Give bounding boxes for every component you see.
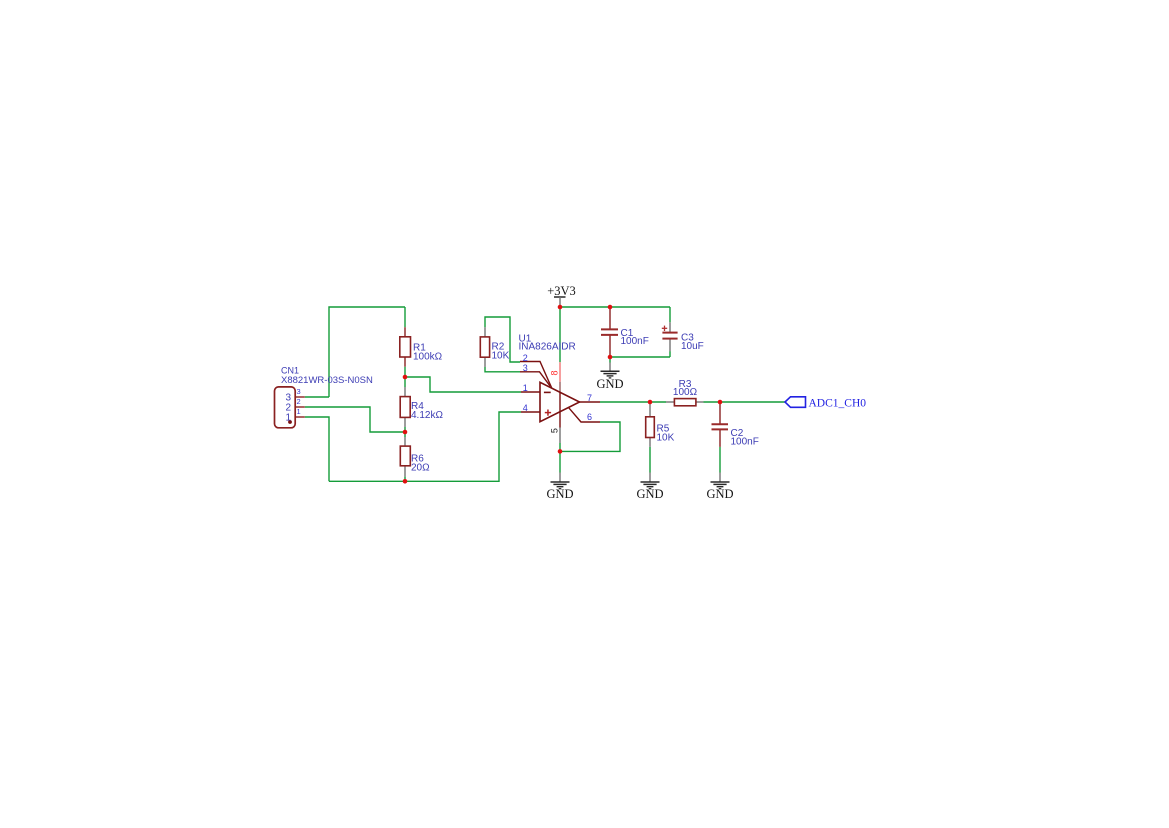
wire — [404, 427, 406, 437]
wire — [559, 307, 561, 362]
capacitor C1 — [601, 308, 649, 356]
pin 8 — [559, 362, 561, 382]
capacitor C3 — [662, 322, 704, 352]
svg-text:10uF: 10uF — [681, 341, 704, 352]
resistor R5 — [646, 404, 675, 447]
svg-text:100Ω: 100Ω — [673, 387, 698, 398]
plus polarity mark — [662, 326, 667, 331]
wire — [404, 477, 406, 482]
pin 6 — [569, 408, 600, 422]
plus mark — [545, 410, 551, 416]
svg-text:10K: 10K — [657, 433, 675, 444]
pin 7 — [580, 401, 601, 403]
wire — [669, 307, 671, 322]
node C1 bottom — [608, 355, 613, 360]
svg-text:2: 2 — [523, 353, 528, 363]
ground GND (pin5) — [546, 473, 573, 502]
wire — [305, 396, 329, 398]
pin 3 — [520, 372, 550, 386]
node R1/R4 — [403, 375, 408, 380]
wire — [329, 307, 405, 397]
ground GND (C1) — [596, 363, 623, 392]
wire — [560, 422, 620, 451]
svg-text:X8821WR-03S-N0SN: X8821WR-03S-N0SN — [281, 375, 373, 386]
node C1 top — [608, 305, 613, 310]
svg-text:INA826AIDR: INA826AIDR — [519, 342, 576, 353]
wire — [404, 377, 406, 387]
svg-text:CN1: CN1 — [281, 365, 299, 375]
wire — [405, 377, 521, 392]
junction node dots — [403, 305, 723, 484]
wire — [485, 317, 520, 362]
node C2 top — [718, 400, 723, 405]
wire — [485, 367, 520, 372]
svg-text:GND: GND — [636, 487, 663, 501]
svg-text:20Ω: 20Ω — [411, 463, 430, 474]
svg-text:3: 3 — [523, 363, 528, 373]
pin 1 — [521, 391, 540, 393]
pin 3 stub — [295, 396, 305, 398]
svg-text:3: 3 — [297, 387, 301, 396]
wire — [649, 447, 651, 473]
node R6 bottom — [403, 479, 408, 484]
resistor R1 — [400, 327, 443, 367]
pin 4 — [521, 411, 540, 413]
wire — [560, 306, 670, 308]
resistor R4 — [400, 387, 443, 427]
wire — [404, 307, 406, 327]
op-amp U1 INA826AIDR — [519, 334, 601, 444]
svg-text:1: 1 — [297, 407, 301, 416]
svg-text:10K: 10K — [492, 351, 510, 362]
wire — [305, 417, 329, 481]
ground GND (R5) — [636, 473, 663, 502]
pin1 indicator dot — [288, 420, 292, 424]
resistor R6 — [400, 437, 430, 477]
port ADC1_CH0 — [785, 397, 866, 410]
svg-text:ADC1_CH0: ADC1_CH0 — [809, 397, 867, 409]
svg-text:4: 4 — [523, 403, 528, 413]
wire — [600, 401, 666, 403]
node R5 top — [648, 400, 653, 405]
svg-text:GND: GND — [546, 487, 573, 501]
svg-text:100kΩ: 100kΩ — [413, 352, 443, 363]
svg-text:+3V3: +3V3 — [547, 284, 576, 298]
svg-text:GND: GND — [706, 487, 733, 501]
wire — [404, 367, 406, 377]
svg-text:1: 1 — [523, 383, 528, 393]
node R4/R6 — [403, 430, 408, 435]
wire — [559, 443, 561, 473]
connector CN1 — [275, 365, 374, 428]
wire — [329, 412, 521, 481]
resistor R2 — [480, 327, 509, 367]
wire — [719, 447, 721, 473]
svg-text:7: 7 — [587, 393, 592, 403]
pin 5 — [559, 428, 561, 444]
svg-text:4.12kΩ: 4.12kΩ — [411, 410, 443, 421]
node pin5/pin6 — [558, 449, 563, 454]
wire — [305, 407, 404, 432]
capacitor C2 — [712, 404, 759, 447]
svg-text:6: 6 — [587, 412, 592, 422]
wire — [609, 357, 611, 363]
svg-text:1: 1 — [285, 413, 291, 424]
svg-text:100nF: 100nF — [731, 436, 759, 447]
svg-text:100nF: 100nF — [621, 336, 649, 347]
wire — [704, 401, 786, 403]
svg-text:2: 2 — [297, 397, 301, 406]
op-amp triangle body — [540, 382, 580, 421]
svg-text:8: 8 — [550, 370, 560, 375]
wire — [669, 351, 671, 357]
pin 2 stub — [295, 406, 305, 408]
ground GND (C2) — [706, 473, 733, 502]
svg-text:GND: GND — [596, 377, 623, 391]
pin 2 — [520, 362, 552, 389]
power +3V3 — [547, 284, 576, 306]
resistor R3 — [666, 379, 704, 406]
node +3V3 junction — [558, 305, 563, 310]
svg-text:5: 5 — [550, 428, 560, 433]
pin 1 stub — [295, 416, 305, 418]
wire — [610, 356, 670, 358]
minus mark — [544, 391, 551, 393]
